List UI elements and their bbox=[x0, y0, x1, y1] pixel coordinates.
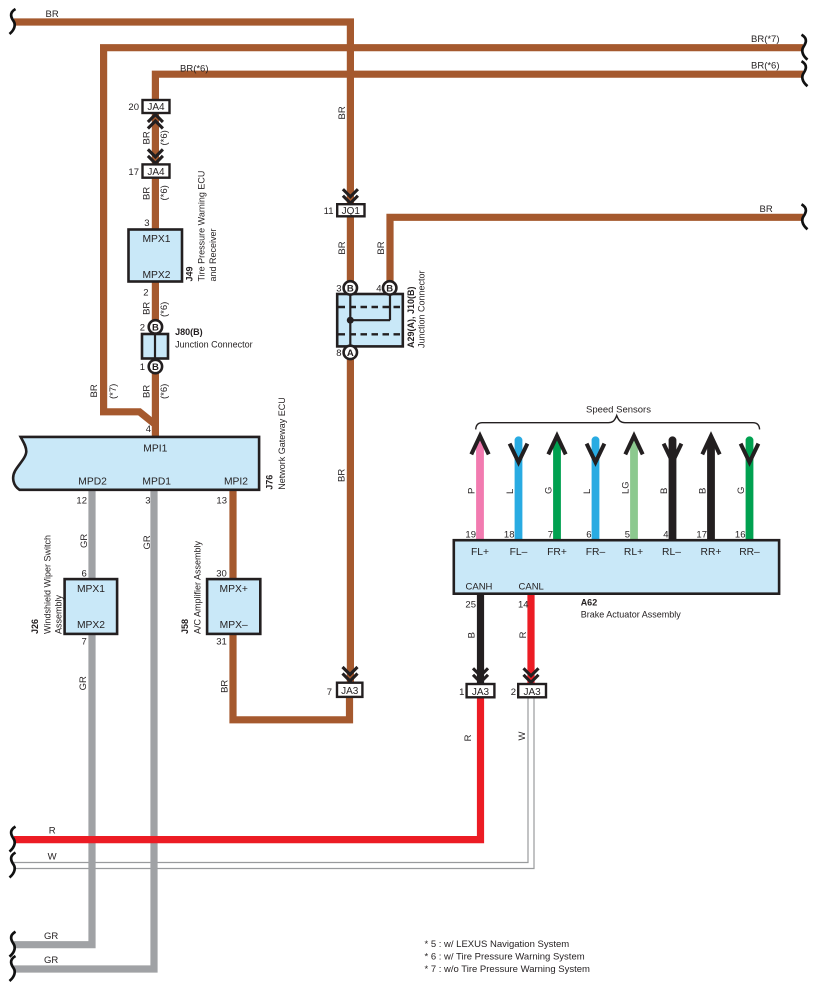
svg-text:BR: BR bbox=[337, 106, 348, 119]
svg-text:GR: GR bbox=[79, 534, 90, 548]
svg-text:17: 17 bbox=[696, 530, 707, 541]
svg-text:(*6): (*6) bbox=[159, 130, 170, 145]
svg-text:8: 8 bbox=[336, 348, 341, 359]
svg-text:BR: BR bbox=[142, 187, 153, 200]
svg-text:J26: J26 bbox=[30, 619, 40, 634]
svg-text:J80(B): J80(B) bbox=[175, 327, 203, 337]
svg-text:and Receiver: and Receiver bbox=[208, 228, 218, 281]
svg-text:31: 31 bbox=[216, 637, 227, 648]
svg-text:MPX2: MPX2 bbox=[77, 620, 105, 631]
svg-text:* 6 : w/ Tire Pressure Warning: * 6 : w/ Tire Pressure Warning System bbox=[425, 952, 585, 963]
svg-text:11: 11 bbox=[324, 206, 334, 217]
svg-text:B: B bbox=[698, 488, 709, 494]
svg-text:GR: GR bbox=[44, 931, 58, 942]
svg-text:Network Gateway ECU: Network Gateway ECU bbox=[277, 397, 287, 490]
svg-text:MPD1: MPD1 bbox=[142, 476, 171, 487]
svg-text:B: B bbox=[386, 283, 393, 294]
svg-text:B: B bbox=[347, 283, 354, 294]
svg-text:R: R bbox=[49, 826, 56, 837]
svg-text:25: 25 bbox=[465, 600, 476, 611]
svg-text:Assembly: Assembly bbox=[54, 594, 64, 634]
svg-text:GR: GR bbox=[44, 955, 58, 966]
svg-text:6: 6 bbox=[82, 569, 87, 580]
svg-text:MPX1: MPX1 bbox=[142, 234, 170, 245]
svg-text:13: 13 bbox=[216, 496, 227, 507]
svg-text:G: G bbox=[736, 487, 747, 494]
svg-text:FL–: FL– bbox=[510, 547, 528, 558]
svg-text:LG: LG bbox=[621, 481, 632, 494]
svg-text:JA3: JA3 bbox=[523, 687, 541, 698]
svg-text:BR: BR bbox=[376, 241, 387, 254]
svg-text:G: G bbox=[544, 487, 555, 494]
svg-text:J58: J58 bbox=[180, 619, 190, 634]
svg-text:Junction Connector: Junction Connector bbox=[175, 340, 253, 350]
svg-text:BR(*7): BR(*7) bbox=[751, 34, 780, 45]
svg-text:* 5 : w/ LEXUS Navigation Syst: * 5 : w/ LEXUS Navigation System bbox=[425, 939, 570, 950]
svg-text:CANL: CANL bbox=[519, 582, 544, 593]
svg-text:RL–: RL– bbox=[662, 547, 681, 558]
svg-text:CANH: CANH bbox=[466, 582, 493, 593]
svg-text:20: 20 bbox=[128, 102, 139, 113]
svg-text:BR: BR bbox=[337, 241, 348, 254]
svg-text:L: L bbox=[505, 489, 516, 494]
svg-text:BR(*6): BR(*6) bbox=[751, 61, 780, 72]
svg-text:GR: GR bbox=[142, 535, 153, 549]
svg-text:A/C Amplifier Assembly: A/C Amplifier Assembly bbox=[193, 540, 203, 634]
svg-text:Junction Connector: Junction Connector bbox=[417, 270, 427, 348]
svg-text:3: 3 bbox=[144, 218, 149, 229]
svg-text:BR: BR bbox=[219, 680, 230, 693]
svg-text:MPI1: MPI1 bbox=[143, 444, 167, 455]
svg-text:1: 1 bbox=[459, 687, 464, 698]
svg-text:FR–: FR– bbox=[586, 547, 606, 558]
svg-text:W: W bbox=[517, 732, 528, 741]
svg-text:A29(A), J10(B): A29(A), J10(B) bbox=[406, 286, 416, 348]
svg-text:7: 7 bbox=[327, 687, 332, 698]
svg-text:5: 5 bbox=[625, 530, 630, 541]
svg-text:3: 3 bbox=[145, 496, 150, 507]
svg-text:4: 4 bbox=[376, 284, 381, 295]
svg-text:BR: BR bbox=[89, 384, 100, 397]
svg-text:L: L bbox=[582, 489, 593, 494]
svg-text:(*6): (*6) bbox=[159, 384, 170, 399]
svg-text:A62: A62 bbox=[581, 598, 598, 608]
svg-text:B: B bbox=[152, 362, 159, 373]
svg-text:J76: J76 bbox=[265, 475, 275, 490]
svg-text:7: 7 bbox=[82, 637, 87, 648]
svg-text:GR: GR bbox=[78, 676, 89, 690]
svg-text:2: 2 bbox=[140, 323, 145, 334]
svg-text:J49: J49 bbox=[185, 266, 195, 281]
svg-text:12: 12 bbox=[76, 496, 87, 507]
svg-text:JA4: JA4 bbox=[147, 102, 165, 113]
svg-text:14: 14 bbox=[518, 600, 529, 611]
svg-text:16: 16 bbox=[735, 530, 746, 541]
svg-text:JA3: JA3 bbox=[472, 687, 490, 698]
svg-text:R: R bbox=[518, 631, 529, 638]
svg-text:MPI2: MPI2 bbox=[224, 476, 248, 487]
svg-text:4: 4 bbox=[146, 424, 151, 435]
svg-text:JA4: JA4 bbox=[147, 167, 165, 178]
svg-text:18: 18 bbox=[504, 530, 515, 541]
svg-text:BR: BR bbox=[760, 204, 773, 215]
svg-text:3: 3 bbox=[336, 284, 341, 295]
svg-text:MPD2: MPD2 bbox=[78, 476, 107, 487]
svg-text:BR: BR bbox=[337, 469, 348, 482]
svg-text:BR: BR bbox=[46, 9, 59, 20]
svg-text:6: 6 bbox=[586, 530, 591, 541]
svg-text:4: 4 bbox=[663, 530, 668, 541]
svg-text:Brake Actuator Assembly: Brake Actuator Assembly bbox=[581, 610, 682, 620]
svg-text:R: R bbox=[463, 734, 474, 741]
svg-text:B: B bbox=[467, 632, 478, 638]
svg-text:MPX2: MPX2 bbox=[142, 270, 170, 281]
svg-text:P: P bbox=[467, 488, 478, 494]
svg-text:(*6): (*6) bbox=[159, 302, 170, 317]
svg-text:(*6): (*6) bbox=[159, 185, 170, 200]
svg-text:RL+: RL+ bbox=[624, 547, 643, 558]
svg-text:A: A bbox=[347, 348, 354, 359]
svg-text:Speed Sensors: Speed Sensors bbox=[586, 405, 651, 416]
svg-text:2: 2 bbox=[511, 687, 516, 698]
svg-text:FL+: FL+ bbox=[471, 547, 489, 558]
svg-text:BR(*6): BR(*6) bbox=[180, 64, 209, 75]
svg-text:BR: BR bbox=[142, 131, 153, 144]
svg-text:B: B bbox=[152, 322, 159, 333]
svg-text:30: 30 bbox=[216, 569, 227, 580]
svg-text:JQ1: JQ1 bbox=[342, 206, 361, 217]
svg-text:(*7): (*7) bbox=[108, 384, 119, 399]
svg-text:Tire Pressure Warning ECU: Tire Pressure Warning ECU bbox=[197, 171, 207, 282]
svg-text:BR: BR bbox=[142, 385, 153, 398]
svg-text:B: B bbox=[659, 488, 670, 494]
svg-text:2: 2 bbox=[143, 288, 148, 299]
svg-text:MPX+: MPX+ bbox=[220, 584, 248, 595]
svg-text:BR: BR bbox=[142, 302, 153, 315]
svg-text:MPX–: MPX– bbox=[220, 620, 248, 631]
svg-text:7: 7 bbox=[548, 530, 553, 541]
svg-text:Windshield Wiper Switch: Windshield Wiper Switch bbox=[42, 535, 52, 634]
svg-text:19: 19 bbox=[465, 530, 476, 541]
svg-text:17: 17 bbox=[128, 167, 139, 178]
svg-text:W: W bbox=[48, 852, 57, 863]
svg-text:RR–: RR– bbox=[739, 547, 760, 558]
svg-text:JA3: JA3 bbox=[341, 686, 359, 697]
svg-text:RR+: RR+ bbox=[701, 547, 722, 558]
svg-text:FR+: FR+ bbox=[547, 547, 567, 558]
svg-text:* 7 : w/o Tire Pressure Warnin: * 7 : w/o Tire Pressure Warning System bbox=[425, 964, 591, 975]
svg-text:1: 1 bbox=[140, 362, 145, 373]
svg-text:MPX1: MPX1 bbox=[77, 584, 105, 595]
